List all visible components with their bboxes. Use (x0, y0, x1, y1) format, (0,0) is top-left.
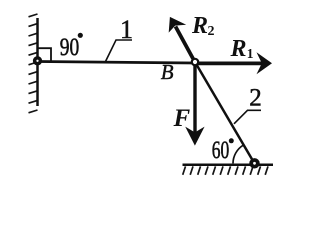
member 2 (diagonal bar) (195, 62, 255, 164)
wall line (36, 18, 39, 106)
force R2 arrow (176, 27, 194, 60)
svg-text:1: 1 (247, 46, 254, 61)
wall pin (35, 58, 41, 64)
degree dot of 60 (229, 138, 234, 143)
svg-text:R: R (230, 36, 247, 62)
wall hatching (29, 14, 38, 113)
svg-text:2: 2 (208, 24, 215, 39)
member 1 (horizontal bar) (38, 62, 195, 64)
ground pin (251, 160, 258, 167)
svg-text:F: F (173, 105, 191, 132)
svg-text:90: 90 (60, 34, 80, 61)
leader line of label 1 (106, 40, 133, 62)
svg-text:2: 2 (249, 85, 262, 112)
60 degree arc (233, 145, 243, 163)
right-angle square marker (38, 48, 51, 62)
leader line of label 2 (234, 110, 261, 124)
svg-text:60: 60 (212, 137, 230, 164)
ground hatching (183, 166, 268, 174)
svg-text:B: B (161, 60, 174, 84)
ground line (183, 164, 274, 167)
node B pin (192, 59, 198, 65)
force R1 arrow (197, 62, 262, 66)
degree dot of 90 (78, 33, 83, 38)
svg-text:R: R (191, 13, 208, 39)
force F arrow (193, 64, 196, 133)
